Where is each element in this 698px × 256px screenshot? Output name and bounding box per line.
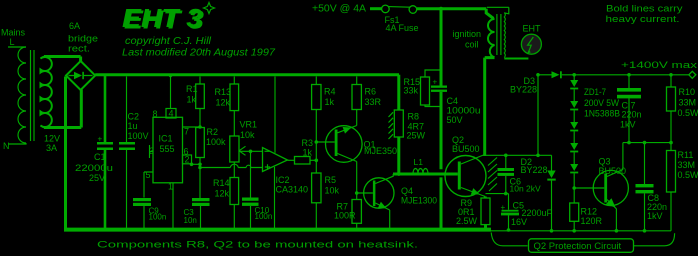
svg-text:25W: 25W (407, 131, 426, 141)
wire secondary to D3 (504, 58, 528, 60)
svg-text:16V: 16V (511, 217, 527, 227)
svg-text:R6: R6 (365, 87, 377, 97)
svg-text:BY228: BY228 (521, 165, 548, 175)
node junction (191.5,164.3) (190, 163, 194, 167)
wire pin1 to ground (172, 183, 174, 228)
svg-text:EHT 3: EHT 3 (124, 5, 205, 35)
resistor R12 (573, 188, 575, 203)
svg-text:Q2 Protection Circuit: Q2 Protection Circuit (534, 241, 622, 252)
wire pin7 (183, 126, 200, 128)
capacitor C7 (628, 75, 630, 88)
svg-text:0.5W: 0.5W (678, 170, 698, 180)
pin 5 (144, 172, 153, 198)
transistor Q4 MJE1300 (364, 178, 394, 208)
capacitor C5 (508, 194, 510, 210)
svg-text:Mains: Mains (1, 28, 26, 38)
ignition coil secondary (503, 13, 506, 58)
ignition coil core (497, 14, 501, 55)
svg-text:7: 7 (184, 127, 189, 137)
wire pin4 to rail (170, 77, 172, 109)
protection label box (529, 239, 634, 253)
svg-text:R14: R14 (213, 178, 230, 188)
svg-text:2: 2 (185, 155, 190, 165)
svg-text:VR1: VR1 (240, 120, 258, 130)
wire opamp output (288, 159, 295, 161)
node junction (250.5,151.3) (249, 150, 253, 154)
svg-text:12V: 12V (44, 134, 60, 144)
wire N (8, 143, 26, 144)
resistor R13 (233, 77, 235, 137)
IC1 555 (153, 117, 183, 183)
svg-text:Bold lines carry: Bold lines carry (606, 4, 683, 14)
svg-text:120R: 120R (581, 216, 603, 226)
svg-text:R8: R8 (408, 112, 420, 122)
transformer T1 core (31, 50, 35, 141)
node junction (629,74.8) (627, 73, 631, 77)
wire primary to Q2 collector (485, 58, 495, 156)
wire 555 net to VR1 (200, 164, 263, 167)
wire bridge negative down (64, 77, 67, 230)
transistor Q3 BU500 (593, 170, 628, 205)
capacitor C1 (104, 76, 107, 142)
svg-text:1k: 1k (325, 97, 335, 107)
svg-text:1kV: 1kV (647, 211, 663, 221)
potentiometer VR1 (230, 136, 239, 162)
op-amp IC2 CA3140 (263, 148, 288, 172)
wire secondary top to bridge (44, 57, 81, 62)
svg-text:R10: R10 (679, 87, 696, 97)
capacitor C9 (133, 198, 151, 201)
svg-text:R13: R13 (215, 87, 232, 97)
svg-text:4A Fuse: 4A Fuse (386, 23, 419, 33)
svg-text:copyright C.J. Hill: copyright C.J. Hill (125, 35, 212, 47)
node junction (629,142.6) (627, 141, 631, 145)
svg-text:100R: 100R (334, 211, 356, 221)
capacitor C3 (192, 198, 210, 201)
resistor R2 (196, 128, 205, 158)
node junction (644.5,142.6) (643, 141, 647, 145)
svg-text:22000u: 22000u (75, 163, 113, 173)
node junction (170.5,75.5) (169, 74, 172, 77)
svg-text:Last modified 20th August 1997: Last modified 20th August 1997 (122, 47, 276, 59)
svg-text:10n 2kV: 10n 2kV (510, 184, 542, 194)
wire Q1 base (316, 141, 334, 143)
svg-text:L: L (10, 37, 15, 47)
pin 2 (183, 155, 192, 164)
svg-text:rect.: rect. (68, 44, 90, 54)
wire pin3 stub (150, 145, 154, 158)
resistor R10 (670, 75, 672, 87)
wire fuse to coil (417, 7, 487, 10)
svg-text:Q3: Q3 (599, 157, 611, 167)
svg-text:C4: C4 (447, 96, 459, 106)
node junction (505.8,193.6) (504, 192, 508, 196)
node junction (671,142.6) (669, 141, 673, 145)
sparkle (204, 3, 215, 14)
svg-text:coil: coil (465, 40, 479, 50)
svg-text:BU500: BU500 (452, 144, 480, 154)
svg-text:33k: 33k (404, 86, 419, 96)
svg-text:8: 8 (153, 109, 158, 119)
ground line thin (491, 230, 671, 232)
inductor L1 line (393, 173, 458, 176)
capacitor C8 (644, 143, 646, 184)
wire to fuse (370, 7, 382, 10)
inductor L1 (413, 169, 428, 174)
resistor R8 (397, 75, 400, 174)
capacitor C10 (250, 153, 252, 198)
zener chain ZD1-7 (573, 75, 575, 80)
svg-text:+50V @ 4A: +50V @ 4A (312, 4, 366, 15)
resistor R9 (481, 198, 490, 225)
svg-text:50V: 50V (447, 115, 463, 125)
svg-text:25V: 25V (89, 173, 105, 183)
protection border left (491, 233, 527, 246)
svg-text:R12: R12 (581, 207, 598, 217)
node junction (200,167.5) (198, 166, 202, 170)
svg-text:555: 555 (160, 144, 175, 154)
node junction (644.5,230.8) (643, 229, 647, 233)
heatsink hatch R8 (389, 112, 394, 139)
pin 4 (166, 109, 176, 119)
wire opamp V+ (274, 77, 276, 153)
svg-text:1kV: 1kV (620, 120, 636, 130)
wire bridge positive rail (95, 73, 399, 76)
svg-text:100n: 100n (255, 212, 273, 221)
wire pin2 to R2 (192, 163, 201, 165)
resistor R15 (425, 70, 441, 107)
node Q3 base (572, 186, 576, 190)
svg-text:4: 4 (169, 109, 174, 119)
svg-text:33M: 33M (678, 160, 696, 170)
resistor R4 (315, 77, 317, 174)
wire R2 bottom column (199, 158, 201, 199)
wire secondary top link (487, 7, 509, 14)
svg-text:R3: R3 (302, 138, 314, 148)
svg-text:0.5W: 0.5W (678, 108, 698, 118)
resistor R5 (312, 173, 321, 203)
node junction (671,74.8) (669, 73, 673, 77)
wire wiper to opamp (239, 150, 263, 152)
svg-text:CA3140: CA3140 (276, 185, 309, 195)
bridge rectifier BR1 (66, 61, 95, 90)
svg-text:N: N (3, 141, 10, 151)
svg-text:BU500: BU500 (599, 166, 627, 176)
resistor R14 (230, 178, 239, 205)
node junction (538,74.8) (536, 73, 540, 77)
wire opamp V- (274, 167, 276, 228)
svg-text:+: + (98, 135, 103, 144)
svg-text:ignition: ignition (453, 29, 482, 39)
svg-text:Q4: Q4 (401, 186, 413, 196)
svg-text:C2: C2 (128, 112, 140, 122)
svg-text:R1: R1 (186, 84, 198, 94)
node junction (508.5,230) (507, 228, 511, 232)
svg-text:+: + (433, 78, 438, 87)
svg-text:1: 1 (168, 182, 173, 192)
svg-text:R5: R5 (325, 175, 337, 185)
svg-text:33M: 33M (679, 98, 697, 108)
resistor R1 (199, 77, 201, 128)
resistor R11 (670, 143, 672, 151)
resistor R3 (295, 157, 311, 165)
wire riser to D3 (537, 75, 539, 156)
capacitor C6 (505, 155, 507, 168)
svg-text:C1: C1 (94, 152, 106, 162)
svg-text:200V 5W: 200V 5W (584, 98, 619, 108)
transistor Q1 MJE350 (326, 126, 363, 163)
svg-text:220n: 220n (622, 110, 642, 120)
svg-text:+1400V max: +1400V max (621, 60, 698, 70)
svg-text:1k: 1k (187, 95, 197, 105)
wire R3 to node (310, 159, 316, 161)
ground rail bold (64, 228, 491, 232)
node junction (505.8,155.3) (504, 154, 508, 158)
diode D3 (552, 71, 560, 78)
node Q1 base (315, 140, 319, 144)
wire secondary bottom to bridge (44, 90, 81, 128)
node junction (316.3,160.3) (315, 159, 319, 163)
node junction (616.4,230.8) (615, 229, 619, 233)
resistor R7 (352, 200, 361, 224)
svg-text:R2: R2 (207, 127, 219, 137)
wire Q2 emitter node (486, 193, 509, 195)
svg-text:12k: 12k (216, 98, 231, 108)
bridge inner diode (69, 75, 93, 77)
svg-text:MJE350: MJE350 (364, 146, 397, 156)
svg-text:6A: 6A (69, 21, 80, 31)
svg-text:heavy current.: heavy current. (606, 14, 680, 24)
wire HV line (538, 74, 552, 76)
node junction (574.2,230.8) (572, 229, 576, 233)
fuse Fs1 (382, 5, 390, 13)
node Q4 base (355, 191, 359, 195)
svg-text:IC2: IC2 (276, 175, 290, 185)
transformer T1 primary (18, 47, 26, 143)
heatsink hatch Q2 (488, 158, 497, 192)
svg-text:1N5388B: 1N5388B (584, 109, 620, 119)
title EHT 3 (122, 3, 205, 35)
capacitor C2 (126, 77, 128, 229)
svg-text:IC1: IC1 (159, 134, 173, 144)
svg-text:10k: 10k (325, 186, 340, 196)
node junction (200,164.3) (198, 163, 202, 167)
svg-text:BY228: BY228 (510, 85, 537, 95)
svg-text:33R: 33R (365, 97, 382, 107)
wire Q2 collector node (485, 154, 552, 156)
svg-text:L1: L1 (414, 157, 424, 167)
transistor Q2 BU500 (445, 156, 486, 197)
svg-text:10k: 10k (240, 130, 255, 140)
node R1/R2 (198, 125, 202, 129)
resistor R6 (356, 77, 358, 126)
svg-text:2.5W: 2.5W (456, 216, 478, 226)
VR1 wiper arrow (239, 146, 246, 155)
svg-text:Components R8, Q2 to be mounte: Components R8, Q2 to be mounted on heats… (97, 240, 418, 251)
svg-text:R4: R4 (324, 87, 336, 97)
wire L (8, 46, 26, 48)
svg-text:100n: 100n (149, 213, 167, 222)
wire clamp node (623, 142, 671, 144)
svg-text:MJE1300: MJE1300 (401, 196, 437, 206)
svg-text:EHT: EHT (523, 24, 542, 34)
svg-text:100k: 100k (206, 137, 226, 147)
node junction (398.8,174) (397, 172, 401, 176)
svg-text:1k: 1k (303, 148, 313, 158)
ignition coil primary (486, 9, 493, 19)
svg-text:5: 5 (146, 170, 151, 180)
svg-text:100V: 100V (128, 131, 149, 141)
node junction (574.2,74.8) (572, 73, 576, 77)
svg-text:bridge: bridge (68, 34, 98, 44)
wire +50V down (440, 9, 443, 86)
svg-text:10000u: 10000u (447, 106, 481, 116)
diode D2 (551, 155, 553, 170)
svg-text:ZD1-7: ZD1-7 (584, 87, 606, 97)
svg-text:3A: 3A (46, 143, 57, 153)
protection border right (634, 233, 675, 246)
svg-text:10n: 10n (184, 216, 197, 225)
wire VR1 bottom to R14 (233, 162, 235, 178)
node junction (538,155.3) (536, 154, 540, 158)
wire Q4 base (357, 192, 373, 194)
svg-text:1u: 1u (128, 121, 138, 131)
terminal +1400V (689, 71, 696, 78)
svg-text:12k: 12k (215, 189, 230, 199)
svg-text:R11: R11 (678, 150, 694, 160)
transformer T1 secondary (41, 57, 52, 128)
node junction (551.5,230.8) (550, 229, 554, 233)
node junction (441,8.7) (439, 7, 443, 11)
